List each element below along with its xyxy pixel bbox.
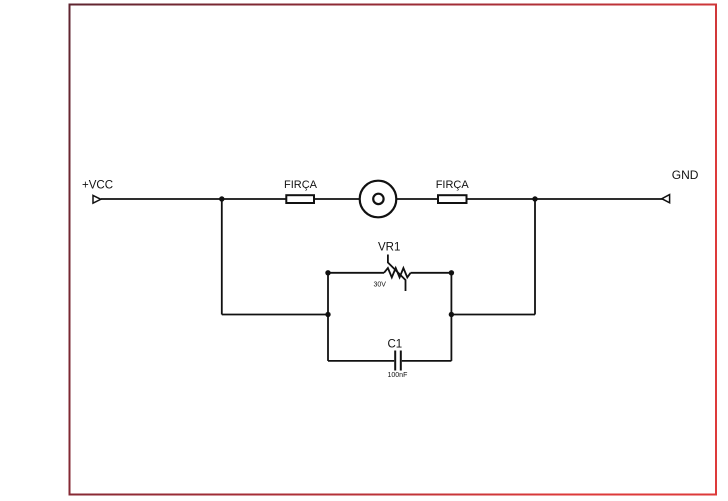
wire bottom horizontal right <box>451 314 535 316</box>
value 100nF <box>388 372 408 379</box>
wire bottom horizontal left <box>222 314 328 316</box>
value 30V <box>374 282 387 289</box>
svg-text:FIRÇA: FIRÇA <box>284 179 318 191</box>
net GND label <box>672 168 699 182</box>
wire loop left vertical <box>327 273 329 361</box>
svg-text:C1: C1 <box>388 339 403 351</box>
svg-text:VR1: VR1 <box>378 242 400 254</box>
node junction D (right loop tap) <box>449 312 454 317</box>
node junction A (left, on main wire) <box>219 196 224 201</box>
varistor VR1 <box>328 255 451 292</box>
svg-text:100nF: 100nF <box>388 372 408 379</box>
wire left vertical drop <box>221 199 223 315</box>
motor M (circle with inner circle) <box>360 181 397 218</box>
capacitor C1 <box>328 351 451 371</box>
node junction C (left loop tap) <box>325 312 330 317</box>
wire main horizontal left segment <box>101 198 286 200</box>
node junction E (VR1 left) <box>325 270 330 275</box>
wire loop right vertical <box>450 273 452 361</box>
wire resistor1 to motor <box>314 198 360 200</box>
node junction B (right, on main wire) <box>532 196 537 201</box>
wire main horizontal right segment <box>467 198 663 200</box>
net +VCC label <box>82 180 113 192</box>
svg-text:GND: GND <box>672 168 699 182</box>
resistor FIRÇA (left) label <box>284 179 318 191</box>
svg-text:+VCC: +VCC <box>82 180 113 192</box>
wire motor to resistor2 <box>396 198 438 200</box>
svg-text:30V: 30V <box>374 282 387 289</box>
svg-text:FIRÇA: FIRÇA <box>436 179 470 191</box>
net GND terminal <box>662 195 670 203</box>
node junction F (VR1 right) <box>449 270 454 275</box>
varistor VR1 label <box>378 242 400 254</box>
resistor FIRÇA (right) label <box>436 179 470 191</box>
capacitor C1 label <box>388 339 403 351</box>
wire right vertical drop <box>534 199 536 315</box>
net +VCC terminal <box>93 195 101 203</box>
resistor FIRÇA (left) <box>286 195 314 203</box>
resistor FIRÇA (right) <box>438 195 467 203</box>
